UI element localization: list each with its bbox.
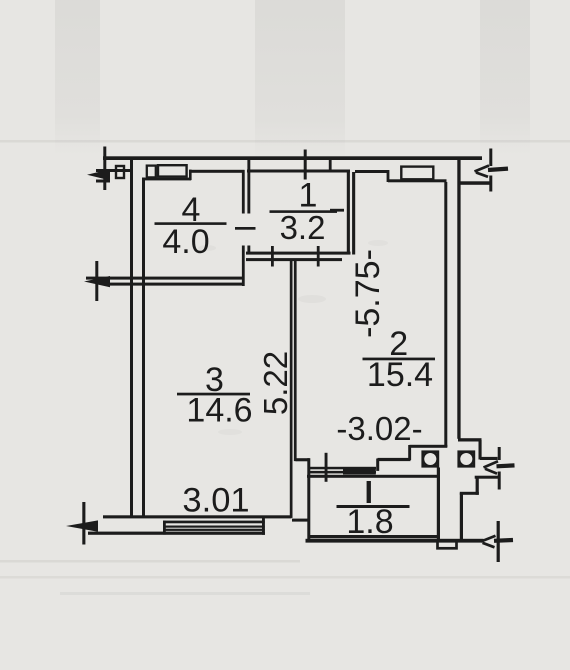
wire room4 top wall right part — [190, 170, 245, 173]
wire room2 bottom step right of door — [376, 459, 379, 471]
wire wall room4/room1 right line lower — [247, 246, 250, 254]
door opening line lower — [310, 471, 377, 474]
wire right outer wall outer line — [457, 160, 460, 439]
node door tick room1 bottom right — [317, 246, 320, 267]
svg-text:14.6: 14.6 — [186, 392, 252, 430]
svg-text:-3.02-: -3.02- — [336, 410, 422, 447]
node top-left dimension arrow — [87, 169, 110, 180]
wire room1 bottom wall lower line — [246, 258, 342, 261]
wire top-right outside wall stub — [460, 181, 492, 185]
wire middle wall bottom corner to bathroom — [292, 519, 309, 522]
wire bathroom right wall — [437, 468, 440, 540]
wire room4 bottom wall lower line — [104, 283, 245, 286]
svg-text:5.22: 5.22 — [257, 351, 294, 415]
wire top-right extension line upper — [489, 149, 492, 167]
wire room2 bottom ledge left — [296, 458, 310, 461]
wire mid-left extension line — [95, 261, 98, 301]
wire right-mid extension line upper — [498, 447, 501, 460]
node bathroom number I — [367, 481, 371, 503]
wire room2 bottom wall right part — [410, 445, 448, 448]
node door tick room1 right — [330, 209, 344, 212]
svg-text:3.01: 3.01 — [182, 482, 249, 520]
node room 3 underline — [177, 393, 250, 396]
wire top outer wall — [103, 156, 482, 160]
wire outside right wall lower — [460, 493, 463, 541]
node right-mid dimension arrow — [484, 461, 515, 473]
wire bathroom bottom inner line — [308, 535, 438, 538]
wire wall room4/room1 left line upper — [242, 170, 245, 214]
vent shaft S2 circle — [459, 452, 474, 467]
vent V1 small — [147, 166, 156, 178]
wire connector top wall at x330 — [329, 160, 332, 172]
door lintel black bar — [343, 469, 376, 475]
node bathroom underline — [337, 505, 410, 508]
wire room2 top wall right part — [388, 179, 447, 182]
wire bottom wall top line — [103, 515, 292, 518]
wire room2 bottom step up — [408, 445, 411, 460]
vent shaft S1 square — [423, 452, 438, 467]
wire top-left corner stub — [96, 180, 110, 183]
wire right outside step down — [479, 440, 482, 460]
node bathroom bottom bump — [438, 541, 457, 549]
window W1 right edge — [262, 518, 265, 535]
wire room2 bottom ledge right — [378, 458, 411, 461]
wire room4 top wall under vents — [142, 178, 191, 181]
wire top-left extension line — [103, 147, 106, 191]
wire bottom wall bottom line — [88, 532, 265, 535]
wire room1 right wall line b — [352, 172, 355, 255]
wire bathroom left wall — [307, 458, 310, 540]
window W1 inner line 2 — [163, 529, 265, 531]
wire middle wall right line — [294, 261, 297, 461]
wire right wall turn east — [458, 438, 482, 441]
wire right outer wall inner line — [444, 182, 447, 447]
wire left outer wall inner line — [142, 178, 145, 517]
wire room1 bottom wall upper line — [246, 252, 351, 255]
node room 2 underline — [363, 358, 436, 361]
door opening line upper — [310, 467, 377, 470]
wire wall room4/room1 right line upper — [247, 160, 250, 214]
node room 1 underline — [270, 210, 338, 213]
wire left outer wall outer line — [130, 159, 133, 518]
node door tick room4/room1 — [235, 227, 256, 230]
vent V2 large — [158, 165, 187, 176]
node bottom-right dimension arrow — [481, 536, 513, 548]
wire outside step below arrow vertical — [476, 477, 479, 495]
window W1 left edge — [163, 521, 166, 535]
vent shaft S1 circle — [423, 452, 438, 467]
wire room2 top wall step — [387, 170, 390, 182]
wire outside step below arrow top — [475, 476, 498, 479]
wire step right of vents — [189, 170, 192, 181]
wire right outside stub to arrow — [480, 457, 498, 460]
svg-text:15.4: 15.4 — [367, 356, 433, 394]
vent V3 room2 top — [401, 167, 433, 180]
wire top-right extension line lower — [489, 176, 492, 192]
wire room2 top wall left part — [355, 170, 389, 173]
wire bathroom top wall — [307, 475, 438, 478]
window W1 inner line 1 — [163, 526, 265, 528]
wire right-mid extension line lower — [498, 472, 501, 490]
node door tick bathroom — [325, 453, 328, 482]
wire wall room4/room1 left line lower — [242, 246, 245, 287]
wire room4 bottom wall upper line — [86, 277, 245, 280]
vent shaft S2 square — [459, 452, 474, 467]
wire outside step horizontal — [460, 492, 479, 495]
svg-text:1.8: 1.8 — [346, 503, 393, 541]
node door tick room1 bottom left — [271, 246, 274, 267]
node mid-left dimension arrow — [84, 276, 110, 287]
svg-text:-5.75-: -5.75- — [349, 249, 387, 338]
wire bathroom bottom outer wall — [306, 539, 484, 543]
wire bottom-left extension line — [82, 502, 85, 545]
wire bottom-right extension line — [497, 521, 500, 562]
wire room1 top wall — [247, 170, 350, 173]
wire room1 right wall line a — [347, 172, 350, 255]
svg-text:3.2: 3.2 — [280, 209, 326, 246]
node corner vent box — [116, 166, 124, 178]
node top-right dimension arrow — [475, 166, 509, 177]
node room 4 underline — [155, 222, 227, 225]
wire middle wall left line — [290, 261, 293, 518]
node top-center extension tick — [304, 150, 307, 180]
node bottom-left dimension arrow — [66, 520, 98, 531]
svg-text:4.0: 4.0 — [162, 223, 209, 261]
window W1 top edge — [163, 521, 265, 524]
